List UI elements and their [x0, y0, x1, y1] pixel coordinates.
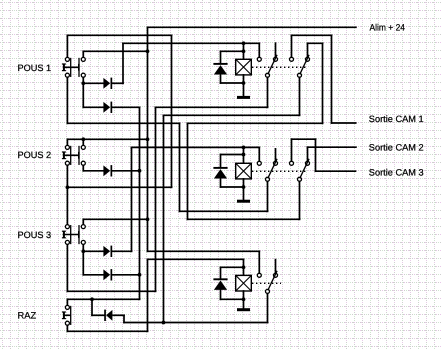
svg-text:Sortie CAM 3: Sortie CAM 3: [369, 167, 424, 177]
svg-text:Sortie CAM 2: Sortie CAM 2: [369, 143, 424, 153]
svg-text:RAZ: RAZ: [18, 311, 37, 321]
svg-text:Alim + 24: Alim + 24: [370, 23, 406, 33]
svg-text:POUS 2: POUS 2: [18, 150, 52, 160]
svg-text:POUS 1: POUS 1: [18, 63, 52, 73]
svg-text:Sortie CAM 1: Sortie CAM 1: [369, 114, 424, 124]
svg-text:POUS 3: POUS 3: [18, 230, 52, 240]
